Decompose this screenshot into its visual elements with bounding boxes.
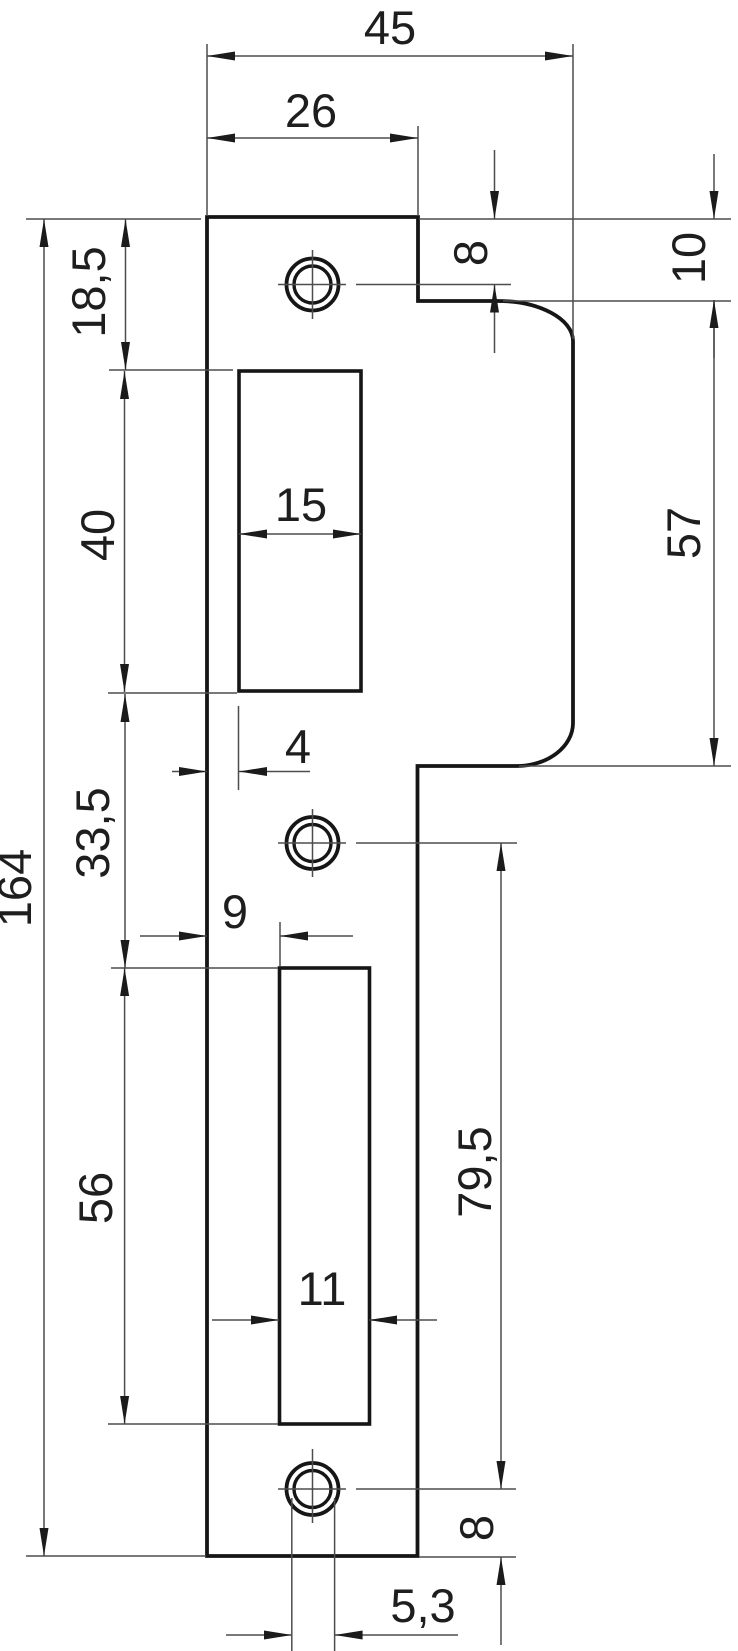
ext x207 top: [206, 44, 208, 216]
svg-text:164: 164: [0, 849, 41, 927]
dim 26 arrows: [207, 134, 235, 143]
dim 18,5 line: [125, 219, 127, 370]
ext plate bottom left y1556: [26, 1555, 206, 1557]
hole 3 centerlines: [278, 1449, 346, 1523]
ext x418: [417, 126, 419, 216]
svg-text:4: 4: [285, 720, 311, 773]
hole 1 centerlines: [278, 250, 346, 319]
ext x573 top: [572, 44, 574, 339]
hole 2 centerlines: [278, 809, 346, 877]
dim 11 arrows: [251, 1316, 279, 1325]
ext plate bottom right y1557: [419, 1556, 516, 1558]
svg-text:26: 26: [285, 84, 337, 137]
svg-text:9: 9: [222, 885, 248, 938]
ext hole3 left edge x291.8: [291, 1498, 293, 1651]
ext top-right y219: [419, 218, 731, 220]
ext slot2 bottom y1424: [108, 1423, 278, 1425]
dim 15 arrows: [239, 530, 267, 539]
ext slot2 left x280: [279, 922, 281, 966]
hole 3 inner: [294, 1471, 331, 1508]
dim 45 line: [207, 55, 573, 57]
dim 10 lines: [713, 154, 715, 219]
dim 4 lines: [172, 771, 207, 773]
dim 4 arrows: [179, 767, 207, 776]
dim 164 line: [43, 219, 45, 1556]
ext step y301: [503, 300, 731, 302]
dim 10 arrows: [710, 191, 719, 219]
dim 57 bottom arrow: [710, 738, 719, 766]
dim 8 top lines: [494, 150, 496, 219]
dim 15 line: [239, 533, 361, 535]
dim 9 lines: [140, 935, 207, 937]
dim 8 bottom line: [500, 1557, 502, 1645]
ext slot1 bottom y693: [108, 692, 237, 694]
dim 56 line: [124, 968, 126, 1424]
dim 5,3 lines: [226, 1634, 292, 1636]
svg-text:56: 56: [69, 1172, 122, 1224]
dim 79,5 arrows: [497, 843, 506, 871]
dim 11 lines: [212, 1319, 279, 1321]
dim 9 arrows: [179, 932, 207, 941]
svg-text:33,5: 33,5: [66, 787, 119, 878]
ext lip bottom y766: [519, 765, 731, 767]
svg-text:40: 40: [71, 509, 124, 561]
dim 5,3 arrows: [264, 1631, 292, 1640]
ext slot1 top y370: [109, 369, 233, 371]
dim 33,5 arrows: [121, 694, 130, 722]
svg-text:8: 8: [444, 240, 497, 266]
dim 45 arrows: [207, 52, 235, 61]
ext slot1 left x238.5: [238, 706, 240, 790]
ext hole3 right edge x334.6: [334, 1498, 336, 1651]
svg-text:45: 45: [364, 1, 416, 54]
ext slot2 top y968: [111, 967, 278, 969]
dim 40 line: [124, 371, 126, 692]
dim 164 arrows: [40, 219, 49, 247]
ext top-left y219: [26, 218, 201, 220]
slot 2 (11x56 cutout): [280, 968, 370, 1424]
hole 1 inner: [294, 266, 331, 303]
hole 1 outer: [287, 259, 339, 311]
svg-text:57: 57: [657, 507, 710, 559]
dim 57 line: [713, 300, 715, 766]
svg-text:5,3: 5,3: [390, 1579, 455, 1632]
plate outline: [207, 217, 573, 1556]
svg-text:10: 10: [662, 232, 715, 284]
svg-text:79,5: 79,5: [448, 1126, 501, 1217]
ext hole3 center y1489: [356, 1488, 516, 1490]
svg-text:18,5: 18,5: [62, 246, 115, 337]
slot 1 (15x40 cutout): [239, 371, 361, 691]
ext hole1 center y284.5: [356, 284, 511, 286]
dim 79,5 line: [500, 843, 502, 1489]
hole 2 outer: [287, 817, 339, 869]
hole 3 outer: [287, 1463, 339, 1515]
dim 56 arrows: [120, 968, 129, 996]
dim 40 arrows: [120, 371, 129, 399]
dim 33,5 line: [124, 694, 126, 968]
dim 26 line: [207, 137, 418, 139]
dim 8 top arrows: [490, 191, 499, 219]
dim 18,5 arrows: [121, 219, 130, 247]
svg-text:8: 8: [450, 1515, 503, 1541]
ext hole2 center y843: [356, 842, 517, 844]
hole 2 inner: [294, 825, 331, 862]
svg-text:15: 15: [275, 478, 327, 531]
svg-text:11: 11: [298, 1262, 347, 1315]
dim 8 bottom arrow: [497, 1557, 506, 1585]
